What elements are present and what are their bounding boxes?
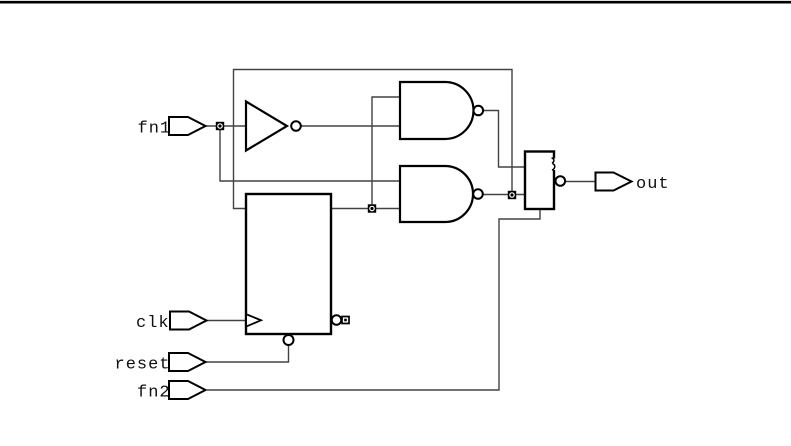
label fn2: [137, 384, 171, 403]
wire node B up to NAND1 top input: [372, 97, 400, 209]
svg-text:out: out: [636, 175, 670, 194]
svg-text:reset: reset: [115, 356, 171, 375]
node B FF-Q junction: [368, 204, 376, 212]
wire fn1 port to inverter input: [205, 125, 246, 127]
wire NAND2 output to FF D via top rail: [234, 70, 513, 209]
top rule: [0, 1, 791, 4]
gate U5: [525, 152, 565, 210]
svg-text:fn1: fn1: [138, 120, 172, 139]
inverter U1: [246, 102, 301, 151]
input port clk: [170, 312, 207, 330]
wire inverter output to NAND1 bottom input: [301, 125, 400, 127]
node C NAND2-out junction: [508, 191, 516, 199]
label reset: [115, 356, 171, 375]
svg-text:fn2: fn2: [137, 384, 171, 403]
wire fn1 to NAND2 top input: [220, 126, 400, 181]
wire U5 output to out port: [566, 181, 596, 183]
NAND gate U2: [400, 82, 483, 139]
node A fn1 junction: [216, 122, 224, 130]
NAND gate U3: [400, 166, 483, 222]
input port fn2: [169, 381, 206, 399]
label out: [636, 175, 670, 194]
wire NAND2 output to U5 input 2: [483, 194, 525, 196]
wire clk port to FF clock: [206, 320, 246, 322]
input port reset: [169, 353, 206, 371]
wire FF Q to NAND2 bottom input: [331, 208, 400, 210]
unconnected pin marker QN: [342, 317, 349, 324]
flip-flop U4: [246, 194, 341, 345]
wire reset port to FF reset bubble: [206, 346, 289, 363]
label clk: [136, 314, 170, 333]
wire fn2 port to U5 bottom pin: [207, 209, 540, 390]
input port fn1: [169, 117, 206, 135]
svg-text:clk: clk: [136, 314, 170, 333]
label fn1: [138, 120, 172, 139]
wire NAND1 output to U5 input 1: [483, 111, 525, 168]
output port out: [596, 173, 632, 191]
